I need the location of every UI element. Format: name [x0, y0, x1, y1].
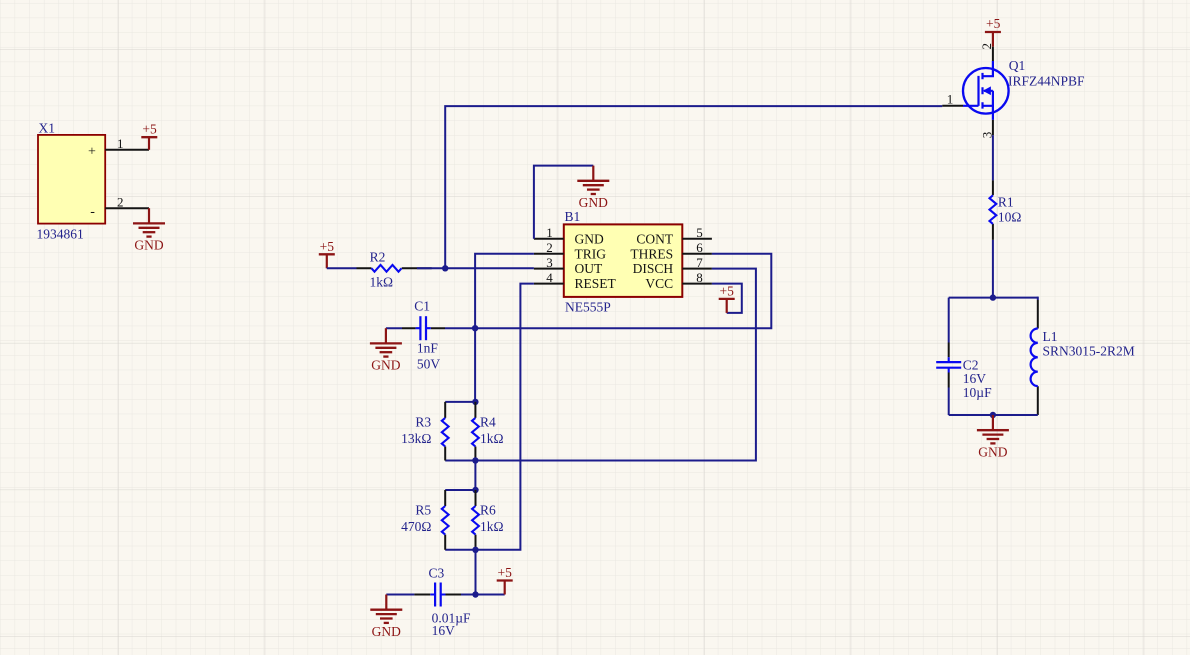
svg-text:1nF: 1nF — [417, 341, 439, 356]
svg-text:OUT: OUT — [575, 261, 603, 276]
svg-text:1: 1 — [947, 91, 954, 106]
capacitor C3 plates — [430, 583, 445, 607]
svg-text:NE555P: NE555P — [565, 300, 611, 315]
svg-text:THRES: THRES — [630, 246, 673, 261]
wire tank bottom rail — [949, 414, 1038, 416]
svg-text:13kΩ: 13kΩ — [401, 431, 431, 446]
svg-text:10µF: 10µF — [963, 385, 992, 400]
svg-text:DISCH: DISCH — [633, 261, 674, 276]
resistor R6 zigzag — [472, 506, 479, 535]
C3 pins — [414, 594, 461, 596]
power port +5 (Q1 drain) — [992, 32, 994, 47]
svg-text:1kΩ: 1kΩ — [480, 431, 504, 446]
node junction R3R4 top — [472, 399, 478, 405]
wire right branch upper corner — [1037, 297, 1039, 300]
B1 pin 8 stub — [682, 283, 712, 285]
svg-text:6: 6 — [696, 240, 703, 255]
svg-text:2: 2 — [117, 194, 124, 209]
svg-text:R3: R3 — [415, 414, 431, 429]
svg-text:1: 1 — [546, 225, 553, 240]
wire Q1 source to R1 — [992, 135, 994, 180]
wire R2 to junction to pin3 — [417, 267, 534, 269]
power port +5 (VCC) — [719, 283, 735, 313]
node junction C3 row — [472, 591, 478, 597]
svg-text:+: + — [88, 145, 96, 160]
B1 pin 5 stub — [682, 238, 712, 240]
svg-text:X1: X1 — [39, 121, 56, 136]
X1 pin 2 — [105, 207, 149, 209]
svg-text:2: 2 — [979, 43, 994, 50]
B1 pin 3 stub — [534, 268, 564, 270]
ground GND (B1 pin1) — [577, 166, 609, 211]
svg-text:TRIG: TRIG — [575, 246, 607, 261]
svg-text:B1: B1 — [565, 209, 581, 224]
capacitor C2 plates — [936, 362, 961, 368]
svg-text:16V: 16V — [432, 623, 456, 638]
resistor R6 pins — [475, 490, 477, 550]
node junction tank bottom — [990, 412, 996, 418]
wire TRIG left and down — [475, 254, 534, 328]
node junction R5R6 top — [472, 487, 478, 493]
resistor R2 zigzag — [372, 265, 402, 272]
wire R1 to tank junction — [992, 240, 994, 298]
svg-text:10Ω: 10Ω — [998, 210, 1022, 225]
svg-text:IRFZ44NPBF: IRFZ44NPBF — [1008, 74, 1085, 89]
svg-text:7: 7 — [696, 255, 703, 270]
node junction tank top — [990, 294, 996, 300]
wire left branch lower — [948, 388, 950, 416]
IC B1 body — [564, 224, 683, 297]
wire +5 to R2 — [327, 267, 357, 269]
svg-text:VCC: VCC — [645, 276, 673, 291]
svg-text:8: 8 — [696, 270, 703, 285]
svg-text:R1: R1 — [998, 195, 1014, 210]
wire C3 to junction to +5 — [461, 594, 505, 596]
svg-text:16V: 16V — [963, 371, 987, 386]
svg-text:C3: C3 — [429, 566, 445, 581]
B1 pin 2 stub — [534, 253, 564, 255]
resistor R3 zigzag — [442, 418, 449, 447]
wire R3 top loop — [445, 401, 475, 403]
ground GND (C1) — [370, 328, 402, 373]
power port +5 (X1 pin1) — [148, 137, 150, 150]
B1 pin 1 stub — [534, 238, 564, 240]
svg-text:5: 5 — [696, 225, 703, 240]
L1 pins — [1037, 300, 1039, 415]
C1 pins — [402, 327, 445, 329]
svg-text:Q1: Q1 — [1009, 58, 1026, 73]
svg-text:C1: C1 — [414, 299, 430, 314]
capacitor C1 plates — [416, 316, 431, 340]
resistor R3 pins — [444, 402, 446, 461]
B1 pin 6 stub — [682, 253, 712, 255]
power port +5 (C3) — [497, 565, 513, 595]
svg-text:GND: GND — [575, 231, 604, 246]
svg-text:50V: 50V — [417, 356, 441, 371]
ground GND (X1 pin2) — [133, 208, 165, 253]
X1 pin 1 — [105, 149, 149, 151]
wire pin1 to GND — [534, 166, 593, 239]
svg-text:4: 4 — [546, 270, 553, 285]
wire RESET left and down — [445, 284, 534, 550]
C2 pins — [948, 343, 950, 388]
svg-text:1934861: 1934861 — [37, 227, 84, 242]
ground GND (tank) — [977, 415, 1009, 460]
node junction R5R6 bottom — [472, 547, 478, 553]
Q1 internals — [963, 61, 993, 120]
wire VCC to +5 — [712, 284, 742, 313]
wire C3 row left — [386, 594, 414, 596]
svg-text:470Ω: 470Ω — [401, 519, 431, 534]
svg-text:R5: R5 — [415, 503, 431, 518]
svg-text:+5: +5 — [986, 16, 1001, 31]
Q1 circle — [963, 68, 1009, 114]
resistor R1 zigzag — [990, 195, 997, 224]
node junction C1 row — [472, 325, 478, 331]
Q1 body-diode arrow — [984, 87, 991, 94]
svg-text:2: 2 — [546, 240, 553, 255]
B1 pin 4 stub — [534, 283, 564, 285]
svg-text:R4: R4 — [480, 414, 496, 429]
resistor R4 zigzag — [472, 418, 479, 447]
wire left branch upper — [948, 298, 950, 343]
wire C1 to junction — [445, 327, 475, 329]
svg-text:SRN3015-2R2M: SRN3015-2R2M — [1043, 344, 1135, 359]
power port +5 (R2 left) — [319, 239, 335, 269]
resistor R5 pins — [444, 490, 446, 550]
svg-text:1: 1 — [117, 136, 124, 151]
svg-text:-: - — [90, 205, 95, 220]
wire THRES right down to C1 row — [475, 254, 771, 328]
Q1 pin 3 stub — [992, 120, 994, 135]
wire R5R6 bottom to C3 row — [475, 550, 477, 595]
svg-text:CONT: CONT — [636, 231, 674, 246]
resistor R2 pins — [357, 267, 432, 269]
inductor L1 coils — [1031, 329, 1038, 387]
svg-text:1kΩ: 1kΩ — [370, 275, 394, 290]
Q1 pin 2 stub — [992, 47, 994, 61]
node junction R3R4 bottom — [472, 457, 478, 463]
wire DISCH right down to R3R4 bottom — [445, 269, 756, 461]
wire tank top rail — [949, 297, 1038, 299]
svg-text:R2: R2 — [370, 250, 386, 265]
svg-text:L1: L1 — [1043, 329, 1058, 344]
wire junction up and to Q1 gate — [445, 106, 942, 268]
svg-text:R6: R6 — [480, 503, 496, 518]
svg-text:3: 3 — [546, 255, 553, 270]
connector X1 body — [38, 135, 105, 224]
resistor R1 pins — [992, 180, 994, 240]
Q1 pin 1 stub (gate) — [942, 105, 963, 107]
wire vertical between resistor pairs — [474, 461, 476, 491]
node junction R2/OUT — [442, 265, 448, 271]
svg-text:+5: +5 — [142, 122, 157, 137]
svg-text:1kΩ: 1kΩ — [480, 519, 504, 534]
resistor R5 zigzag — [442, 506, 449, 535]
wire vertical C1 junction to R3R4 top — [474, 328, 476, 402]
wire R5 top loop — [445, 489, 475, 491]
wire C1 row left — [386, 327, 402, 329]
B1 pin 7 stub — [682, 268, 712, 270]
svg-text:RESET: RESET — [575, 276, 617, 291]
resistor R4 pins — [474, 402, 476, 461]
ground GND (C3) — [370, 595, 402, 640]
